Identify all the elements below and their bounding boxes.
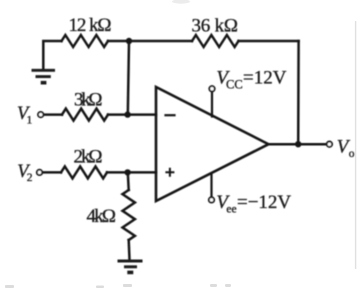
terminal Vee (open circle): [209, 197, 214, 202]
terminal Vo (open circle): [327, 142, 332, 147]
op-amp plus input symbol: [166, 169, 173, 176]
wire 2k to op-amp non-inverting input: [107, 171, 156, 174]
wire op-amp output to Vo terminal: [269, 143, 327, 146]
ground (bottom, below 4k): [118, 261, 143, 272]
wire feedback vertical down to output node: [297, 41, 300, 144]
svg-text:o: o: [349, 148, 355, 160]
node junction dot inverting input: [124, 111, 130, 117]
resistor 12 kOhm: [62, 35, 108, 47]
svg-text:4kΩ: 4kΩ: [87, 206, 117, 227]
wire 36k to top-right corner: [239, 40, 299, 43]
resistor 3 kOhm: [62, 109, 108, 121]
svg-text:ee: ee: [226, 203, 236, 215]
wire V1 terminal to 3k: [44, 113, 62, 116]
wire top-left corner to 12k: [43, 41, 61, 69]
op-amp U1 triangle: [156, 87, 269, 201]
wire Vee pin stub: [210, 174, 212, 197]
terminal Vcc (open circle): [209, 86, 214, 91]
svg-text:2kΩ: 2kΩ: [74, 147, 103, 168]
node junction dot non-inverting input: [124, 169, 130, 175]
svg-text:CC: CC: [226, 78, 243, 92]
faint page rule at right: [355, 21, 357, 269]
resistor 4 kOhm (vertical): [122, 190, 134, 240]
op-amp minus input symbol: [166, 114, 175, 116]
terminal V2 (open circle): [37, 170, 42, 175]
svg-text:1: 1: [27, 114, 33, 126]
wire 4k to bottom ground: [127, 240, 130, 260]
wire Vcc pin stub: [211, 92, 213, 117]
faint cropped caption marks bottom: [5, 284, 231, 288]
svg-text:=12V: =12V: [243, 68, 287, 89]
wire node A down to inverting input node: [128, 41, 129, 115]
svg-text:2: 2: [27, 172, 33, 184]
wire V2 terminal to 2k: [43, 171, 61, 174]
faint cropped mark top: [172, 0, 190, 4]
svg-text:12 kΩ: 12 kΩ: [69, 15, 112, 36]
wire non-inverting node down to 4k: [127, 172, 130, 190]
node A junction dot (12k/36k): [126, 38, 132, 44]
resistor 2 kOhm: [61, 166, 107, 178]
svg-text:=−12V: =−12V: [237, 192, 291, 213]
ground (top left): [32, 70, 56, 82]
resistor 36 kOhm: [192, 35, 238, 47]
svg-text:3kΩ: 3kΩ: [74, 90, 103, 111]
node junction dot output: [295, 141, 301, 147]
wire 12k to node A and on to 36k: [108, 40, 192, 43]
wire 3k to op-amp inverting input: [108, 113, 156, 116]
svg-text:36 kΩ: 36 kΩ: [192, 15, 239, 36]
terminal V1 (open circle): [38, 112, 43, 117]
